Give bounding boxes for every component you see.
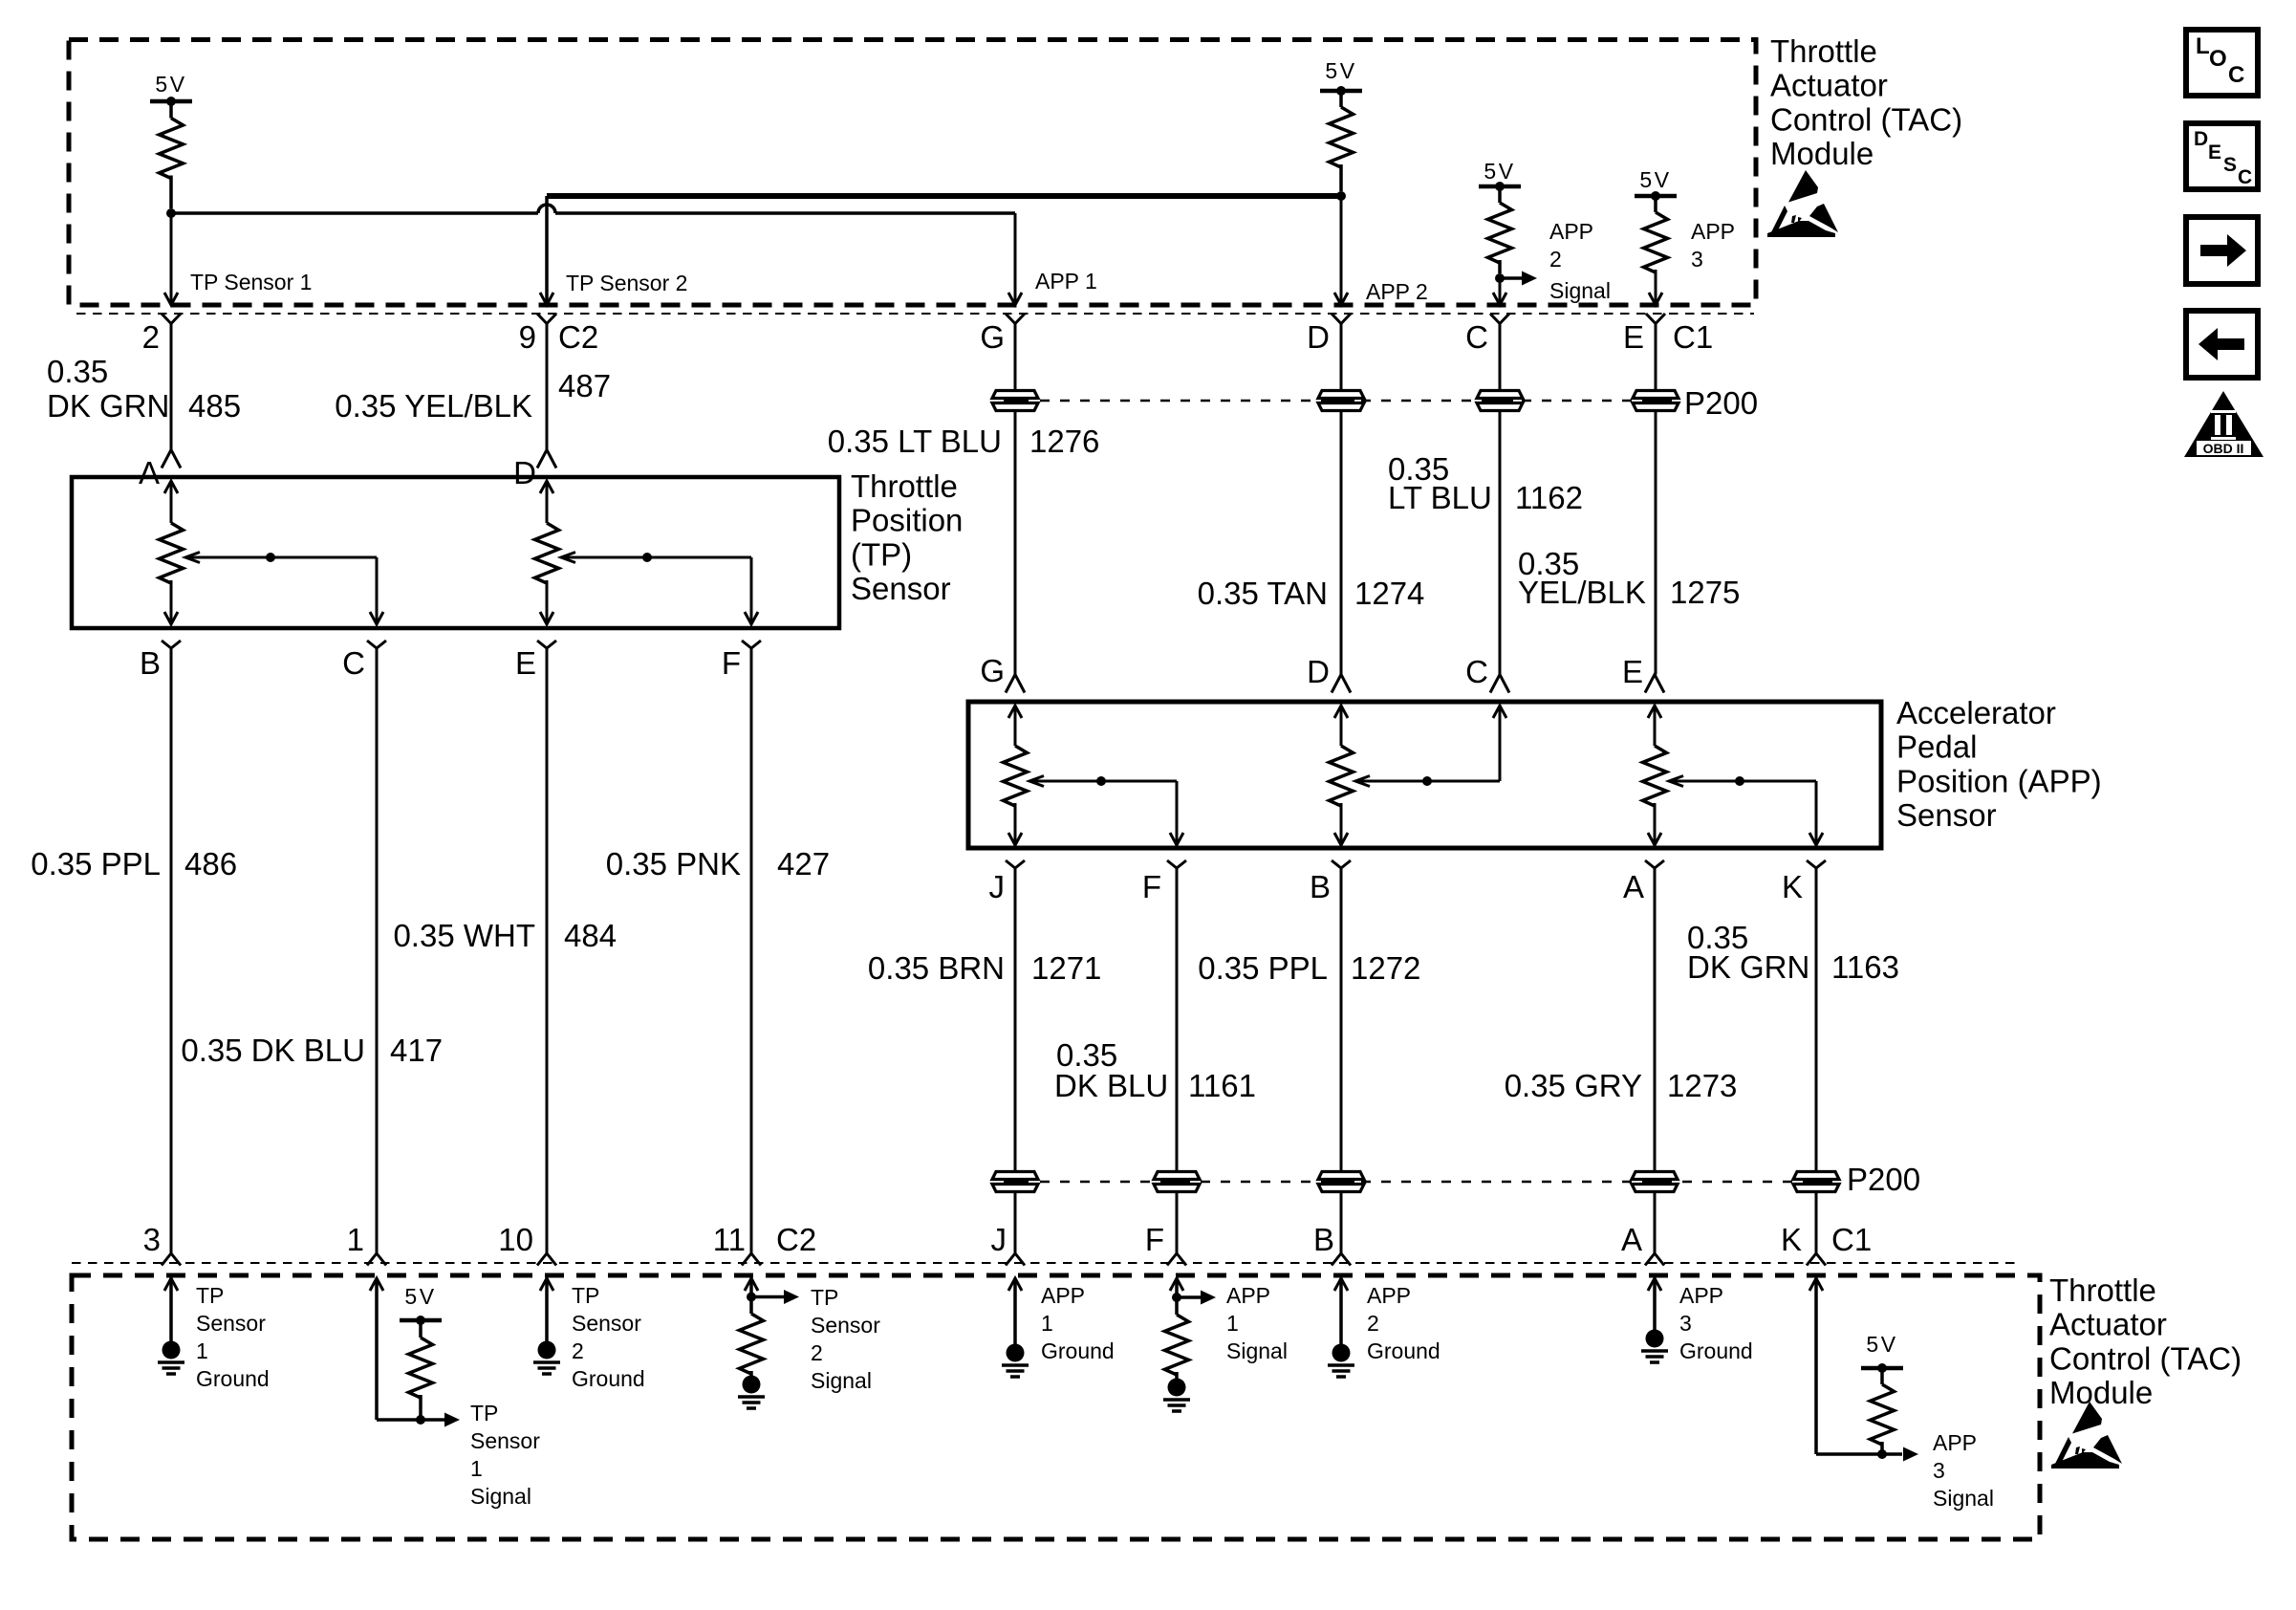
- resistor APP 2 pull-up: [1330, 107, 1354, 167]
- svg-text:APP: APP: [1933, 1430, 1977, 1455]
- APP 3 Signal pin K: [1809, 1278, 1823, 1291]
- svg-text:K: K: [1782, 869, 1803, 904]
- svg-text:DK GRN: DK GRN: [47, 388, 169, 424]
- svg-text:TP: TP: [196, 1283, 224, 1308]
- wire 1275 P200 to APP sensor E: [1655, 411, 1657, 675]
- svg-text:J: J: [991, 1222, 1007, 1257]
- svg-text:10: 10: [498, 1222, 533, 1257]
- OBD II icon: [2184, 391, 2264, 457]
- inline connector P200 (K wire): [1793, 1172, 1839, 1180]
- svg-text:C: C: [2238, 166, 2252, 188]
- connector fork at x=1731 (bottom): [1645, 1253, 1664, 1266]
- svg-text:TP Sensor 2: TP Sensor 2: [566, 271, 687, 295]
- svg-text:E: E: [515, 645, 536, 681]
- svg-text:2: 2: [142, 319, 160, 355]
- svg-text:2: 2: [572, 1338, 584, 1363]
- svg-text:1275: 1275: [1670, 575, 1740, 610]
- svg-text:APP: APP: [1679, 1283, 1723, 1308]
- wire 1161 pin F down: [1176, 868, 1179, 1171]
- svg-text:B: B: [1310, 869, 1331, 904]
- potentiometer TP sensor 1: [164, 481, 178, 493]
- svg-text:5V: 5V: [1639, 167, 1671, 192]
- resistor TP Sensor 2 Signal: [740, 1314, 764, 1374]
- svg-text:TP: TP: [811, 1285, 838, 1310]
- svg-text:DK GRN: DK GRN: [1687, 949, 1809, 985]
- svg-text:Actuator: Actuator: [1770, 68, 1888, 103]
- resistor APP 1 Signal: [1165, 1315, 1189, 1375]
- dashed line P200 (bottom row): [1040, 1181, 1840, 1184]
- svg-text:0.35: 0.35: [47, 354, 108, 389]
- junction TP Sensor 1 / APP 1 5V rail: [166, 208, 176, 218]
- fork at APP box pin D: [1332, 675, 1351, 693]
- svg-text:486: 486: [184, 846, 237, 881]
- svg-text:C2: C2: [776, 1222, 816, 1257]
- svg-text:5V: 5V: [1325, 58, 1356, 83]
- potentiometer APP 2: [1334, 706, 1348, 718]
- inline connector P200 (B wire): [1318, 1172, 1364, 1180]
- svg-text:417: 417: [390, 1033, 443, 1068]
- wire 1272 pin B down: [1340, 868, 1343, 1171]
- svg-text:1162: 1162: [1515, 480, 1583, 515]
- connector fork at x=1231 (bottom): [1167, 1253, 1186, 1266]
- svg-text:5V: 5V: [1484, 159, 1515, 184]
- svg-text:Signal: Signal: [811, 1368, 872, 1393]
- svg-text:APP: APP: [1041, 1283, 1085, 1308]
- svg-text:1163: 1163: [1831, 949, 1899, 985]
- potentiometer APP 3: [1648, 706, 1661, 718]
- svg-text:Sensor: Sensor: [572, 1311, 641, 1336]
- svg-text:Signal: Signal: [470, 1484, 531, 1509]
- fork below APP box pin F: [1167, 860, 1186, 868]
- wiper APP 1: [1029, 776, 1044, 787]
- connector C2/C1 dashed line (top): [76, 313, 1754, 315]
- wire 1276 P200 to APP sensor G: [1014, 411, 1017, 675]
- svg-text:L: L: [2196, 33, 2210, 59]
- wire 487 pin9 to TP sensor D: [546, 324, 549, 450]
- svg-text:0.35 PPL: 0.35 PPL: [1198, 950, 1328, 986]
- svg-text:LT BLU: LT BLU: [1388, 480, 1492, 515]
- Throttle Position sensor box: [72, 477, 839, 628]
- connector fork at x=1900 (bottom): [1807, 1253, 1826, 1266]
- connector fork at x=1403 (bottom): [1332, 1253, 1351, 1266]
- connector fork at x=572 (bottom): [537, 1253, 556, 1266]
- svg-text:0.35 DK BLU: 0.35 DK BLU: [181, 1033, 365, 1068]
- inline connector P200 (APP 2 signal wire): [1477, 391, 1523, 399]
- svg-text:(TP): (TP): [851, 536, 912, 572]
- svg-text:Ground: Ground: [1679, 1338, 1753, 1363]
- svg-text:APP: APP: [1549, 219, 1593, 244]
- LOC icon: [2186, 30, 2258, 96]
- svg-text:5V: 5V: [1866, 1332, 1897, 1357]
- TP Sensor 1 Ground pin 3: [164, 1278, 178, 1291]
- svg-text:C: C: [1465, 319, 1488, 355]
- wire 485 pin2 to TP sensor A: [170, 324, 173, 450]
- svg-text:5V: 5V: [155, 72, 186, 97]
- fork at TP sensor pin A: [162, 450, 181, 468]
- svg-text:APP: APP: [1226, 1283, 1270, 1308]
- arrow into pin 2: [164, 293, 178, 305]
- svg-text:1161: 1161: [1188, 1068, 1256, 1103]
- connector fork at x=1403 (top): [1332, 314, 1351, 324]
- svg-text:APP: APP: [1691, 219, 1735, 244]
- connector fork at x=394 (bottom): [367, 1253, 386, 1266]
- svg-text:3: 3: [1679, 1311, 1692, 1336]
- svg-text:0.35 TAN: 0.35 TAN: [1198, 576, 1328, 611]
- svg-text:D: D: [513, 455, 536, 490]
- wire APP 2 Signal to pin C: [1499, 278, 1502, 303]
- svg-text:Accelerator: Accelerator: [1896, 695, 2056, 730]
- wire 1276 pin G to P200: [1014, 324, 1017, 391]
- wiper TP sensor 2: [561, 553, 575, 563]
- svg-text:Throttle: Throttle: [851, 468, 958, 504]
- svg-text:11: 11: [713, 1222, 746, 1257]
- junction TP Sensor 1 Signal: [416, 1415, 425, 1425]
- ground APP 1 Signal: [1168, 1379, 1186, 1397]
- fork at APP box pin G: [1006, 675, 1025, 693]
- fork below TP box pin F: [742, 641, 761, 648]
- inline connector P200 (APP 1 wire): [992, 391, 1038, 399]
- svg-text:0.35 GRY: 0.35 GRY: [1505, 1068, 1642, 1103]
- inline connector P200 (F wire): [1154, 1172, 1200, 1180]
- svg-text:Position (APP): Position (APP): [1896, 763, 2102, 798]
- svg-text:1: 1: [196, 1338, 208, 1363]
- wire 1275 pin E to P200: [1655, 324, 1657, 391]
- wire 1271 pin J down: [1014, 868, 1017, 1171]
- svg-text:E: E: [1623, 319, 1644, 355]
- svg-text:3: 3: [1691, 247, 1703, 272]
- svg-text:1: 1: [470, 1456, 483, 1481]
- svg-text:APP 1: APP 1: [1035, 269, 1097, 294]
- wiper APP 2: [1355, 776, 1370, 787]
- svg-text:E: E: [2208, 141, 2221, 163]
- APP 1 Ground pin J: [1008, 1278, 1022, 1291]
- inline connector P200 (A wire): [1632, 1172, 1678, 1180]
- svg-text:APP 2: APP 2: [1366, 279, 1428, 304]
- arrow into APP 3 pin: [1649, 293, 1662, 305]
- svg-text:0.35 LT BLU: 0.35 LT BLU: [828, 424, 1002, 459]
- connector fork at x=1062 (bottom): [1006, 1253, 1025, 1266]
- fork below TP box pin B: [162, 641, 181, 648]
- svg-text:Throttle: Throttle: [1770, 33, 1877, 69]
- fork below APP box pin J: [1006, 860, 1025, 868]
- svg-text:Control (TAC): Control (TAC): [2049, 1340, 2242, 1376]
- svg-text:1271: 1271: [1031, 950, 1101, 986]
- fork below APP box pin B: [1332, 860, 1351, 868]
- wire 1162 pin C to P200: [1499, 324, 1502, 391]
- wire TP Sensor 1 to pin 2: [170, 213, 173, 303]
- svg-text:K: K: [1781, 1222, 1802, 1257]
- TP Sensor 2 Signal pin 11: [745, 1278, 758, 1291]
- svg-text:2: 2: [811, 1340, 823, 1365]
- svg-text:C: C: [2228, 62, 2244, 88]
- svg-text:G: G: [980, 653, 1005, 688]
- svg-text:F: F: [1142, 869, 1161, 904]
- svg-text:Signal: Signal: [1549, 278, 1611, 303]
- svg-text:Control (TAC): Control (TAC): [1770, 101, 1962, 137]
- junction APP 3 Signal: [1877, 1449, 1887, 1459]
- wire APP 1 drop to pin G: [1014, 213, 1017, 303]
- wire 427 pin F down: [750, 648, 753, 1253]
- fork below APP box pin K: [1807, 860, 1826, 868]
- svg-text:1: 1: [1041, 1311, 1053, 1336]
- fork below TP box pin C: [367, 641, 386, 648]
- junction APP 2 Signal tap: [1495, 273, 1505, 283]
- connector fork at x=572 (top): [537, 314, 556, 324]
- back arrow icon: [2186, 311, 2258, 378]
- svg-text:TP: TP: [470, 1401, 498, 1425]
- DESC icon: [2186, 123, 2258, 189]
- svg-text:0.35 YEL/BLK: 0.35 YEL/BLK: [335, 388, 532, 424]
- svg-text:P200: P200: [1847, 1162, 1920, 1197]
- dashed line P200 (top row): [1040, 400, 1679, 402]
- svg-text:E: E: [1622, 654, 1643, 689]
- svg-text:1272: 1272: [1351, 950, 1420, 986]
- arrow into APP 1 pin: [1008, 293, 1022, 305]
- wire TP Sensor 2 drop: [545, 196, 549, 303]
- svg-text:Module: Module: [2049, 1375, 2153, 1410]
- svg-text:DK BLU: DK BLU: [1054, 1068, 1168, 1103]
- svg-text:Ground: Ground: [1041, 1338, 1115, 1363]
- APP 2 Ground pin B: [1334, 1278, 1348, 1291]
- svg-text:1273: 1273: [1667, 1068, 1737, 1103]
- svg-text:D: D: [1307, 319, 1330, 355]
- wiper APP 3: [1669, 776, 1683, 787]
- svg-text:A: A: [139, 455, 160, 490]
- svg-text:Ground: Ground: [1367, 1338, 1440, 1363]
- wire 5V rail to APP 1 (with hop over TP Sensor 2 wire): [171, 211, 538, 215]
- svg-text:1: 1: [1226, 1311, 1239, 1336]
- wire 1162 P200 to APP sensor C: [1499, 411, 1502, 675]
- junction APP 2 5V feed: [1336, 191, 1346, 201]
- connector fork at x=179 (top): [162, 314, 181, 324]
- arrow into TP Sensor 2 pin: [540, 293, 553, 305]
- svg-text:0.35 BRN: 0.35 BRN: [868, 950, 1005, 986]
- svg-text:Position: Position: [851, 503, 963, 538]
- resistor APP 2 Signal pull-up: [1488, 203, 1512, 263]
- resistor APP 3 pull-up: [1644, 212, 1668, 272]
- svg-text:0.35 PPL: 0.35 PPL: [31, 846, 161, 881]
- svg-text:F: F: [722, 645, 741, 681]
- arrow APP 2 Signal output: [1500, 276, 1522, 280]
- wire 1163 pin K down: [1815, 868, 1818, 1171]
- wiper TP sensor 1: [185, 553, 200, 563]
- fork at TP sensor pin D: [537, 450, 556, 468]
- arrow APP 3 Signal output: [1903, 1447, 1918, 1462]
- svg-text:APP: APP: [1367, 1283, 1411, 1308]
- thick 5V feed wire APP 2 to TP Sensor 2: [547, 193, 1341, 199]
- connector fork at x=786 (bottom): [742, 1253, 761, 1266]
- svg-text:Sensor: Sensor: [196, 1311, 266, 1336]
- svg-text:C: C: [1465, 654, 1488, 689]
- wire 1274 pin D to P200: [1340, 324, 1343, 391]
- arrow into APP 2 Signal pin: [1493, 293, 1506, 305]
- svg-text:C: C: [342, 645, 365, 681]
- TAC module (bottom) dashed outline: [72, 1275, 2040, 1539]
- svg-text:B: B: [140, 645, 161, 681]
- ground TP Sensor 2 Signal: [743, 1376, 761, 1394]
- TP Sensor 2 Ground pin 10: [540, 1278, 553, 1291]
- connector fork at x=1732 (top): [1646, 314, 1665, 324]
- forward arrow icon: [2186, 217, 2258, 284]
- svg-text:TP: TP: [572, 1283, 599, 1308]
- svg-text:D: D: [2194, 128, 2208, 150]
- svg-text:Pedal: Pedal: [1896, 729, 1977, 765]
- connector fork at x=1062 (top): [1006, 314, 1025, 324]
- fork at APP box pin E: [1645, 675, 1664, 693]
- wire 1274 P200 to APP sensor D: [1340, 411, 1343, 675]
- svg-text:C1: C1: [1673, 319, 1713, 355]
- svg-text:F: F: [1145, 1222, 1164, 1257]
- svg-text:Signal: Signal: [1226, 1338, 1288, 1363]
- svg-text:485: 485: [188, 388, 241, 424]
- svg-text:9: 9: [519, 319, 536, 355]
- wire 486 pin B down: [170, 648, 173, 1253]
- inline connector P200 (APP 3 wire): [1633, 391, 1679, 399]
- svg-text:Sensor: Sensor: [811, 1313, 880, 1338]
- svg-text:J: J: [989, 869, 1006, 904]
- ESD warning symbol (bottom module): [2072, 1402, 2102, 1434]
- svg-text:1: 1: [347, 1222, 364, 1257]
- svg-text:Sensor: Sensor: [470, 1428, 540, 1453]
- svg-text:3: 3: [143, 1222, 161, 1257]
- wire APP 2 to pin D: [1340, 196, 1343, 303]
- svg-text:Throttle: Throttle: [2049, 1273, 2156, 1308]
- fork below APP box pin A: [1645, 860, 1664, 868]
- svg-text:Signal: Signal: [1933, 1486, 1994, 1511]
- APP 3 Ground pin A: [1648, 1278, 1661, 1291]
- potentiometer APP 1: [1008, 706, 1022, 718]
- svg-text:C2: C2: [558, 319, 598, 355]
- resistor TP Sensor 1 pull-up: [160, 119, 184, 179]
- svg-text:TP Sensor 1: TP Sensor 1: [190, 270, 312, 294]
- svg-text:C1: C1: [1831, 1222, 1872, 1257]
- svg-text:2: 2: [1549, 247, 1562, 272]
- svg-text:Actuator: Actuator: [2049, 1307, 2167, 1342]
- svg-text:0.35 WHT: 0.35 WHT: [393, 918, 535, 953]
- svg-text:Ground: Ground: [572, 1366, 645, 1391]
- svg-text:O: O: [2209, 46, 2227, 72]
- wire 417 pin C down: [376, 648, 379, 1253]
- svg-text:487: 487: [558, 368, 611, 403]
- connector C2/C1 dashed line (bottom): [72, 1262, 2022, 1264]
- svg-text:A: A: [1623, 869, 1644, 904]
- svg-text:Ground: Ground: [196, 1366, 270, 1391]
- svg-text:YEL/BLK: YEL/BLK: [1518, 575, 1646, 610]
- svg-text:S: S: [2223, 154, 2237, 176]
- Accelerator Pedal Position sensor box: [968, 702, 1881, 848]
- TAC module (top) dashed outline: [69, 40, 1756, 306]
- connector fork at x=179 (bottom): [162, 1253, 181, 1266]
- svg-text:0.35 PNK: 0.35 PNK: [606, 846, 741, 881]
- connector fork at x=1569 (top): [1490, 314, 1509, 324]
- svg-text:5V: 5V: [404, 1284, 436, 1309]
- arrow into APP 2 pin: [1334, 293, 1348, 305]
- svg-text:2: 2: [1367, 1311, 1379, 1336]
- svg-text:Module: Module: [1770, 136, 1874, 171]
- svg-text:1276: 1276: [1029, 424, 1099, 459]
- svg-text:1274: 1274: [1354, 576, 1424, 611]
- svg-text:3: 3: [1933, 1458, 1945, 1483]
- TP Sensor 1 Signal pin 1: [370, 1278, 383, 1291]
- fork at APP box pin C: [1490, 675, 1509, 693]
- potentiometer TP sensor 2: [540, 481, 553, 493]
- svg-text:Sensor: Sensor: [851, 571, 951, 606]
- inline connector P200 (APP 2 wire): [1318, 391, 1364, 399]
- APP 1 Signal pin F: [1170, 1278, 1183, 1291]
- fork below TP box pin E: [537, 641, 556, 648]
- wire 1273 pin A down: [1654, 868, 1657, 1171]
- svg-text:B: B: [1313, 1222, 1334, 1257]
- svg-text:OBD II: OBD II: [2203, 441, 2244, 456]
- svg-text:484: 484: [564, 918, 617, 953]
- svg-text:D: D: [1307, 654, 1330, 689]
- svg-text:G: G: [980, 319, 1005, 355]
- ESD warning symbol (top module): [1788, 170, 1818, 203]
- arrow TP Sensor 1 Signal output: [444, 1413, 460, 1427]
- svg-text:427: 427: [777, 846, 830, 881]
- svg-text:P200: P200: [1684, 385, 1758, 421]
- inline connector P200 (J wire): [992, 1172, 1038, 1180]
- svg-text:A: A: [1621, 1222, 1642, 1257]
- svg-text:Sensor: Sensor: [1896, 797, 1997, 833]
- wire 484 pin E down: [546, 648, 549, 1253]
